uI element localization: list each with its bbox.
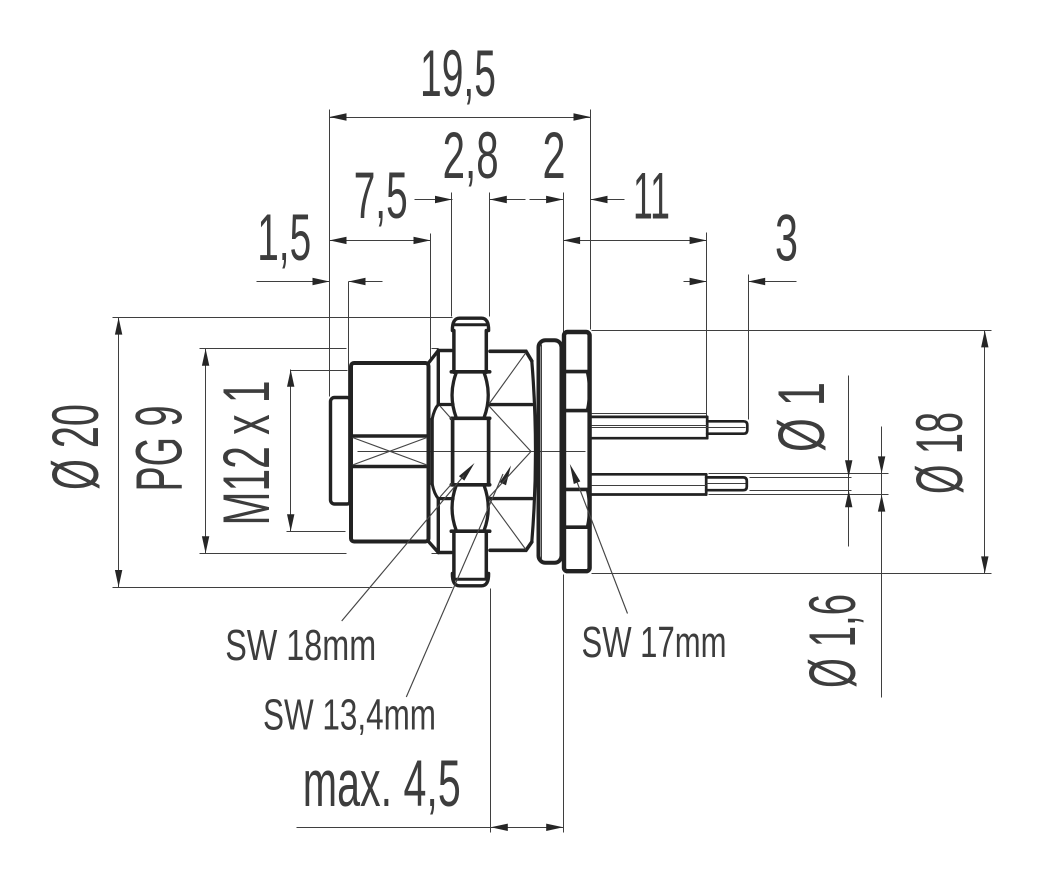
svg-text:2,8: 2,8	[443, 119, 499, 192]
svg-text:19,5: 19,5	[420, 37, 496, 110]
svg-text:11: 11	[633, 160, 670, 233]
svg-text:SW 17mm: SW 17mm	[582, 618, 727, 667]
svg-text:Ø 1: Ø 1	[765, 382, 838, 452]
svg-text:SW 13,4mm: SW 13,4mm	[263, 691, 436, 740]
svg-text:Ø 20: Ø 20	[39, 404, 112, 490]
svg-text:max. 4,5: max. 4,5	[303, 747, 461, 820]
svg-text:Ø 18: Ø 18	[903, 412, 976, 494]
svg-text:3: 3	[775, 202, 798, 275]
svg-text:1,5: 1,5	[257, 201, 311, 274]
svg-text:M12 x 1: M12 x 1	[210, 381, 283, 526]
svg-text:2: 2	[543, 119, 566, 192]
svg-text:PG 9: PG 9	[123, 406, 196, 492]
svg-text:SW 18mm: SW 18mm	[225, 621, 376, 670]
svg-text:7,5: 7,5	[354, 159, 408, 232]
svg-text:Ø 1,6: Ø 1,6	[796, 594, 869, 688]
